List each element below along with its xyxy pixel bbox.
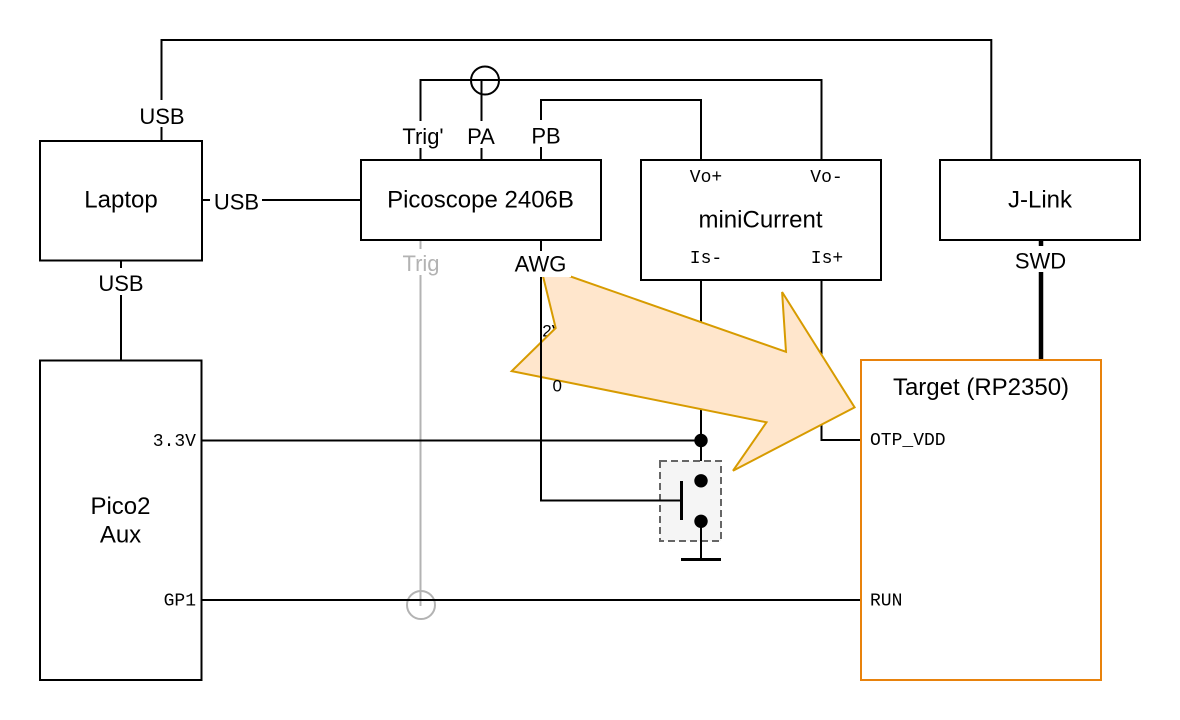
- label PB: [528, 120, 565, 147]
- wire 3.3V from Pico2 Aux to junction: [201, 440, 701, 442]
- wire Trig' from Picoscope top up and right to miniCurrent Vo-: [421, 80, 822, 160]
- label PA: [463, 121, 500, 148]
- svg-text:miniCurrent: miniCurrent: [698, 207, 822, 234]
- svg-text:Vo+: Vo+: [690, 168, 722, 188]
- node junction circle on Trig' wire at PA: [471, 67, 499, 95]
- box miniCurrent: [641, 160, 881, 280]
- svg-text:Is-: Is-: [690, 249, 722, 269]
- wire AWG from Picoscope bottom to switch pole (over arrow): [541, 240, 682, 501]
- svg-text:Picoscope 2406B: Picoscope 2406B: [387, 187, 574, 214]
- svg-text:Pico2: Pico2: [90, 493, 150, 520]
- switch lever pole: [680, 481, 683, 520]
- node Trig probe circle (gray) on GP1 wire: [407, 591, 435, 619]
- svg-text:Laptop: Laptop: [84, 187, 157, 214]
- label AWG: [512, 251, 571, 277]
- node switch top contact dot: [694, 474, 707, 487]
- svg-text:USB: USB: [139, 104, 184, 129]
- svg-text:Vo-: Vo-: [810, 168, 842, 188]
- svg-text:Is+: Is+: [811, 249, 843, 269]
- box Laptop: [40, 141, 202, 261]
- svg-text:PA: PA: [467, 124, 495, 149]
- svg-text:Target (RP2350): Target (RP2350): [893, 374, 1069, 401]
- label Trig': [398, 121, 445, 148]
- wire PA drop from circle to Picoscope top: [481, 80, 483, 160]
- svg-text:GP1: GP1: [164, 592, 196, 612]
- wire Trig (gray) from Picoscope bottom to GP1 line: [420, 240, 422, 606]
- svg-text:OTP_VDD: OTP_VDD: [870, 431, 946, 451]
- box Target (RP2350): [861, 360, 1101, 680]
- svg-text:RUN: RUN: [870, 592, 902, 612]
- svg-text:AWG: AWG: [515, 252, 567, 277]
- node switch bottom contact dot: [694, 515, 707, 528]
- box Picoscope 2406B: [361, 160, 601, 240]
- arrow (orange callout): [512, 266, 855, 471]
- wire Is+ from miniCurrent down and right to Target OTP_VDD: [822, 280, 862, 440]
- svg-text:Trig': Trig': [402, 124, 443, 149]
- svg-text:USB: USB: [214, 190, 259, 215]
- wire RUN from Pico2 Aux GP1 to Target RUN: [201, 599, 861, 601]
- svg-text:Aux: Aux: [100, 522, 141, 549]
- svg-text:SWD: SWD: [1015, 249, 1066, 274]
- wire USB: Laptop top to J-Link top: [162, 40, 992, 160]
- wire PB from Picoscope top to miniCurrent Vo+: [541, 100, 701, 160]
- wire Is- from miniCurrent down to switch top contact: [700, 280, 702, 481]
- box Pico2 Aux: [40, 361, 202, 681]
- wire USB: Laptop right to Picoscope left: [202, 199, 361, 201]
- wire ground stem: [700, 521, 702, 560]
- wire SWD (thick) from J-Link to Target: [1039, 240, 1044, 360]
- svg-text:PB: PB: [531, 124, 560, 149]
- box J-Link: [940, 160, 1140, 240]
- label Trig (gray): [398, 249, 444, 275]
- wire USB: Laptop bottom to Pico2 Aux top: [120, 260, 122, 360]
- switch dashed enclosure: [660, 461, 721, 541]
- svg-text:USB: USB: [98, 271, 143, 296]
- svg-text:0: 0: [553, 377, 562, 396]
- svg-text:Trig: Trig: [402, 251, 439, 276]
- node junction dot on 3.3V: [694, 434, 707, 447]
- svg-text:J-Link: J-Link: [1008, 187, 1073, 214]
- ground: [681, 558, 721, 561]
- svg-text:3.3V: 3.3V: [153, 432, 196, 452]
